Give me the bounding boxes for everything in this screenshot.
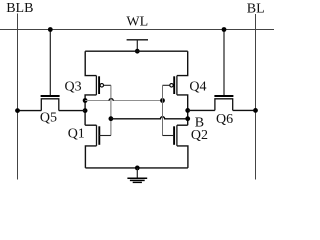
junction gate wire to W2 (109, 116, 114, 121)
node B column (187, 101, 189, 126)
svg-text:Q2: Q2 (191, 128, 208, 143)
wire Q3-Q1 gate wire (110, 85, 112, 135)
junction W1 to Q4-Q2 gate wire (160, 98, 165, 103)
wire Q1 source to ground rail (85, 146, 96, 168)
svg-text:Q5: Q5 (40, 110, 57, 125)
transistor Q1 NMOS pull-down (85, 125, 111, 146)
wire Q6 gate stem from WL (223, 30, 225, 97)
junction ground rail to ground stem (135, 166, 140, 171)
wire W1 hop arc (109, 99, 113, 101)
junction node B to Q6 wire (185, 108, 190, 113)
wire Q2 source to ground rail (177, 146, 188, 168)
svg-text:BLB: BLB (6, 1, 33, 16)
node A column (84, 101, 86, 126)
transistor Q2 NMOS pull-down (163, 125, 188, 146)
wire BLB bit line bar (17, 14, 19, 180)
wire VDD rail to Q4 source (177, 51, 188, 75)
wire VDD rail to Q3 source (85, 51, 96, 75)
svg-text:Q6: Q6 (216, 112, 233, 127)
transistor Q4 PMOS pull-up (163, 76, 177, 95)
svg-text:BL: BL (247, 2, 265, 17)
wire W1 node A to Q4-Q2 gates (hops over Q3-Q1 gate wire) (85, 98, 162, 100)
junction node A to W1 (83, 98, 88, 103)
ground (127, 168, 147, 183)
wire Q3 drain to node A (85, 95, 96, 101)
svg-text:Q3: Q3 (65, 80, 82, 95)
wire node B to Q6 source (188, 109, 215, 111)
junction WL to Q6 gate (222, 27, 227, 32)
wire Q6 drain to BL (233, 109, 256, 111)
transistor Q5 NMOS access left (41, 96, 60, 111)
svg-text:WL: WL (126, 14, 148, 29)
junction WL to Q5 gate (48, 27, 53, 32)
wire VDD rail (85, 50, 188, 52)
wire Q4 drain to node B (177, 95, 188, 101)
svg-text:Q4: Q4 (189, 80, 206, 95)
wire BLB to Q5 source (18, 110, 42, 112)
wire WL word line (0, 29, 274, 31)
power VDD supply bar (127, 40, 148, 51)
wire Q5 drain to node A (59, 110, 85, 112)
wire W2 hop arc (161, 117, 165, 119)
junction node A to Q5 wire (83, 108, 88, 113)
wire Q4-Q2 gate wire (162, 85, 164, 135)
wire BL bit line (255, 14, 257, 180)
transistor Q6 NMOS access right (214, 96, 233, 110)
junction BLB to Q5 wire (15, 108, 20, 113)
wire Q5 gate stem from WL (49, 30, 51, 97)
junction BL to Q6 wire (253, 108, 258, 113)
junction node B to W2 (185, 116, 190, 121)
wire ground rail (85, 167, 187, 169)
wire W2 Q3-Q1 gates to node B (hops over Q4-Q2 gate wire) (111, 117, 188, 119)
svg-text:Q1: Q1 (68, 126, 85, 141)
junction VDD stem to rail (135, 49, 140, 54)
transistor Q3 PMOS pull-up (96, 76, 111, 95)
